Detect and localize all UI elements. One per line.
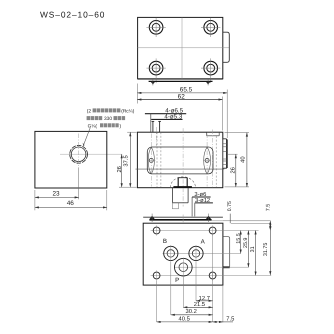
P boss small dim hook bottom xyxy=(172,208,178,210)
dimension 7.5 bottom xyxy=(213,321,223,323)
front view side tab top edge xyxy=(223,139,227,140)
front view right recess centerline xyxy=(212,130,214,188)
extension line left for 65.5/62 xyxy=(136,84,138,104)
front view P flange thick bar xyxy=(173,186,192,188)
strip top line xyxy=(143,216,223,218)
svg-text:G¼(: G¼( xyxy=(88,123,98,129)
dimension 30.2 xyxy=(171,314,213,316)
svg-text:37.5: 37.5 xyxy=(123,155,130,166)
P port boss bottom xyxy=(173,202,189,204)
front view body outline xyxy=(137,132,222,188)
svg-text:B: B xyxy=(163,238,167,245)
bottom view port P vertical crosshair xyxy=(182,258,184,278)
svg-text:7.5: 7.5 xyxy=(226,317,234,323)
svg-text:P: P xyxy=(175,277,179,284)
extension line right for 65.5 xyxy=(226,90,228,139)
front view P stud left line xyxy=(177,178,179,187)
bottom view port B vertical crosshair xyxy=(170,245,172,262)
svg-text:65.5: 65.5 xyxy=(180,86,193,93)
extension line front bottom-left xyxy=(119,186,137,188)
extension column left bolt xyxy=(156,281,158,322)
svg-text:WS–02–10–60: WS–02–10–60 xyxy=(40,9,105,19)
left view port vertical centerline xyxy=(78,134,80,169)
extension line front top-right xyxy=(225,132,250,134)
svg-text:23: 23 xyxy=(52,191,60,198)
front view gasket screw hole left xyxy=(148,147,154,174)
extension column right edge xyxy=(222,285,224,322)
bottom view body outline xyxy=(143,223,223,285)
bottom view port B outer xyxy=(164,246,178,260)
top view horizontal centerline xyxy=(138,47,230,49)
bottom view port B inner xyxy=(167,250,174,257)
front view side tab groove 6 xyxy=(223,164,227,166)
bottom view P port row line xyxy=(174,266,249,268)
top view mounting hole bottom-right xyxy=(204,61,218,75)
dimension 31.75 xyxy=(269,223,271,275)
bottom view port P outer xyxy=(175,258,193,276)
label 4-dia6.5 underline xyxy=(145,113,186,115)
dimension 0.75 line xyxy=(229,214,231,224)
extension line right for 62 xyxy=(221,97,223,131)
front view side tab groove 2 xyxy=(223,146,227,148)
svg-text:25.9: 25.9 xyxy=(243,238,249,249)
front view side tab right thick edge xyxy=(226,140,228,169)
svg-text:31: 31 xyxy=(250,246,256,252)
top view vertical centerline xyxy=(181,17,183,78)
top view body outline xyxy=(138,17,223,78)
bottom view port A inner xyxy=(192,250,199,257)
svg-text:(2: (2 xyxy=(87,108,92,114)
top view right bump (coil end) xyxy=(223,32,230,62)
left view body outline xyxy=(35,131,107,188)
dimension 21.5 xyxy=(183,306,212,308)
label 3-dia6 leader xyxy=(191,197,193,216)
extension column right bolt xyxy=(212,234,214,322)
label 3-dia12 leader xyxy=(194,203,196,217)
front view gasket face rounded rectangle xyxy=(147,147,213,174)
bottom view side tab outline xyxy=(223,237,230,267)
bottom view port A vertical crosshair xyxy=(195,245,197,262)
P boss small dim hook left xyxy=(171,203,173,209)
bottom view side tab thick bottom xyxy=(223,266,230,268)
bottom view bolt hole bottom-left xyxy=(153,272,160,279)
extension line front bottom-right xyxy=(225,186,250,188)
annotation leader line xyxy=(83,128,90,146)
front view side tab groove 5 xyxy=(223,160,227,162)
left view extension right edge xyxy=(106,190,108,210)
label 3-dia12 underline xyxy=(195,202,213,204)
top view mounting hole bottom-left xyxy=(149,61,163,75)
strip left wedge mark xyxy=(150,216,155,219)
front view top-right hidden recess right side xyxy=(218,132,220,136)
svg-text:0.75: 0.75 xyxy=(227,201,233,211)
svg-text:31.75: 31.75 xyxy=(263,243,269,257)
bottom view BA port row line xyxy=(163,252,242,254)
dimension 40 vertical xyxy=(246,133,248,187)
dimension 37.5 vertical xyxy=(129,132,131,187)
svg-text:40: 40 xyxy=(240,156,247,162)
front view side tab groove 1 xyxy=(223,143,227,145)
front view side tab faint left edge xyxy=(222,140,224,169)
P port boss right side xyxy=(187,188,189,203)
front view pin hidden line left xyxy=(156,132,158,187)
svg-text:7.5: 7.5 xyxy=(266,204,272,211)
front view side tab groove 3 xyxy=(223,151,227,153)
extension top edge right xyxy=(231,222,271,224)
dimension 25.9 xyxy=(247,231,249,268)
P boss small dim hook right xyxy=(177,203,179,209)
dimension 46 xyxy=(35,206,107,208)
bottom view port P inner xyxy=(179,263,188,272)
svg-text:15.5: 15.5 xyxy=(236,233,242,244)
bottom view bolt hole top-right xyxy=(209,227,216,234)
svg-text:21.5: 21.5 xyxy=(194,301,205,308)
extension column A port xyxy=(195,262,197,301)
dimension 65.5 xyxy=(137,92,227,94)
front view gasket screw hole right xyxy=(204,147,211,174)
extension line tab groove level xyxy=(227,153,238,155)
dimension 7.5 top right xyxy=(269,221,271,231)
bottom view top bolt row line xyxy=(151,230,259,232)
dimension 40.5 xyxy=(157,321,213,323)
svg-text:(Rc¼): (Rc¼) xyxy=(121,108,134,114)
strip bottom thick line xyxy=(149,219,211,221)
front view top-left locating pin left line xyxy=(152,121,154,132)
top view right wedge mark xyxy=(206,82,210,85)
svg-text:26: 26 xyxy=(229,167,236,173)
left view side port outer circle (thread) xyxy=(70,145,88,163)
front view pin hidden line right xyxy=(160,132,162,187)
top view bottom face thin line xyxy=(138,78,223,80)
svg-text:46: 46 xyxy=(67,200,75,207)
svg-text:40.5: 40.5 xyxy=(179,315,190,322)
dimension 23 xyxy=(35,196,79,198)
top view bottom thick mounting line xyxy=(149,80,213,82)
svg-text:26: 26 xyxy=(116,166,123,172)
dimension 31 xyxy=(255,231,257,276)
front view pin top tick left xyxy=(152,120,155,122)
label 4-dia6.5 leader xyxy=(150,114,152,133)
front view P cavity hidden arch xyxy=(170,177,195,188)
strip bottom extension line right xyxy=(223,220,271,222)
dimension 12.7 xyxy=(196,300,213,302)
annotation line2 control number 330 xyxy=(87,116,91,120)
extension column B port xyxy=(170,262,172,315)
label 4-dia5.3 underline xyxy=(151,118,182,120)
label 3-dia6 underline xyxy=(192,196,211,198)
front view pin top tick right xyxy=(158,120,161,122)
svg-text:62: 62 xyxy=(178,93,186,100)
front view P stud right line xyxy=(186,178,188,187)
strip P centerline tick xyxy=(182,215,184,223)
front view P port centerline xyxy=(182,128,184,206)
dimension 15.5 xyxy=(240,231,242,254)
front view side tab bottom edge xyxy=(223,167,227,169)
dimension 26 left vertical xyxy=(121,154,123,187)
strip right wedge mark xyxy=(206,216,211,219)
extension line side port center xyxy=(60,153,122,155)
front view top-left locating pin right line xyxy=(159,121,161,132)
front view P stud cap xyxy=(178,177,187,179)
dimension 26 right vertical xyxy=(235,154,237,187)
strip thin bottom right segment xyxy=(212,220,223,222)
svg-text:330: 330 xyxy=(104,116,112,122)
bottom view port A outer xyxy=(189,246,203,260)
left view extension port center xyxy=(78,168,80,200)
top view mounting hole top-right xyxy=(204,21,218,35)
front view pin centerline xyxy=(155,127,157,146)
dimension 62 xyxy=(137,99,222,101)
left view side port inner circle xyxy=(71,147,86,162)
top view left wedge mark xyxy=(151,82,155,85)
P port boss left side xyxy=(172,188,174,203)
front view internal horizontal line xyxy=(136,168,225,170)
bottom view bolt hole bottom-right xyxy=(209,272,216,279)
extension column P port xyxy=(182,277,184,307)
top view mounting hole top-left xyxy=(149,21,163,35)
front view side tab groove 4 xyxy=(223,158,227,160)
left view extension left edge xyxy=(34,190,36,210)
front view right recess hidden line xyxy=(215,136,217,187)
bottom view bottom bolt row line xyxy=(151,275,272,277)
svg-text:30.2: 30.2 xyxy=(186,308,197,315)
extension line front top-left xyxy=(127,131,136,133)
bottom view bolt hole top-left xyxy=(153,227,160,234)
front view top-right hidden recess bottom xyxy=(207,135,220,137)
front view top-right hidden recess left side xyxy=(206,132,208,136)
